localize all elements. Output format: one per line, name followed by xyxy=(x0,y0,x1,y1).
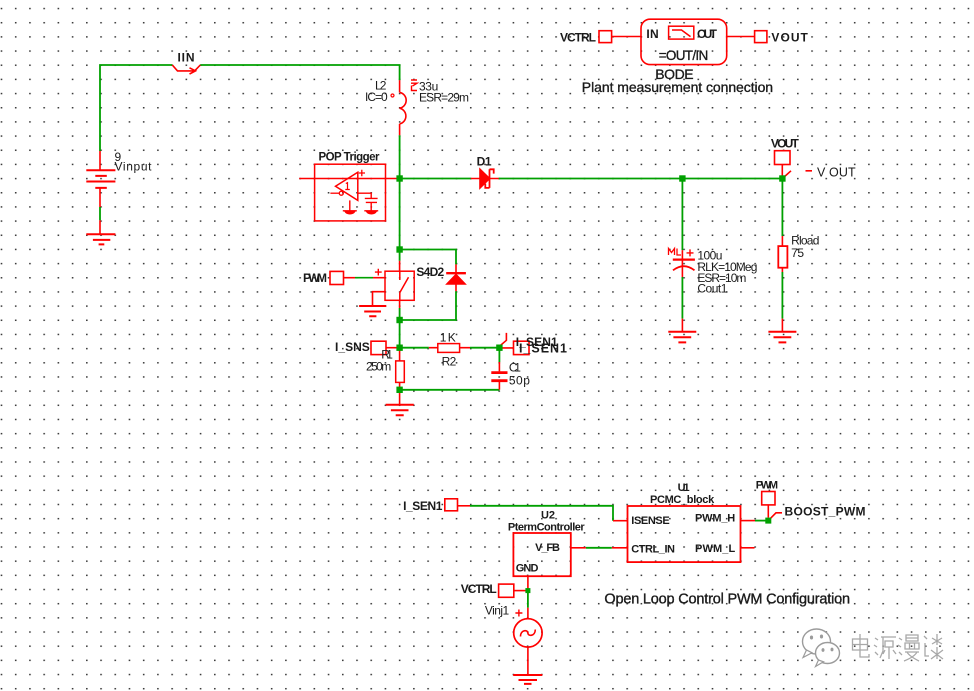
label POP Trigger xyxy=(319,152,381,164)
POP Trigger block U3 xyxy=(315,164,386,221)
wire PWM_H stub xyxy=(740,520,755,522)
wire VCTRL bottom port to node xyxy=(514,590,528,592)
pin label OUT xyxy=(697,27,718,41)
wire PWM_L stub xyxy=(740,547,754,549)
wire branch to body diode xyxy=(400,250,456,265)
svg-text:CTRL_IN: CTRL_IN xyxy=(631,544,675,556)
wire input top (battery to L2) xyxy=(100,65,400,151)
label V OUT net xyxy=(817,166,856,180)
POP Trigger input line xyxy=(299,178,396,180)
port PWM bottom xyxy=(762,492,775,505)
svg-text:PCMC_block: PCMC_block xyxy=(650,494,715,506)
svg-text:VOUT: VOUT xyxy=(771,137,800,151)
ground battery xyxy=(86,234,115,244)
watermark char dian xyxy=(853,634,870,657)
label 1K xyxy=(440,330,456,344)
label I_SEN1 bottom xyxy=(403,499,443,513)
label Vinj1 xyxy=(485,603,510,617)
svg-text:D1: D1 xyxy=(477,155,492,169)
wire I_SNS node to R2 xyxy=(402,347,429,349)
label RLK=10Meg xyxy=(697,260,757,274)
wire VOUT port stub xyxy=(782,165,812,179)
label C1 xyxy=(509,361,521,375)
pin label PWM_L xyxy=(695,543,735,555)
svg-text:IN: IN xyxy=(646,27,658,41)
wire VCTRL top to BODE xyxy=(612,36,641,38)
label PWM bottom xyxy=(756,479,778,491)
svg-text:PWM_L: PWM_L xyxy=(695,543,735,555)
label IIN xyxy=(178,51,195,65)
node Cout junction xyxy=(679,175,685,181)
wire S4D2 top stub xyxy=(399,261,401,271)
node PWM_H junction xyxy=(765,518,771,524)
svg-text:BOOST_PWM: BOOST_PWM xyxy=(785,505,866,519)
svg-text:IIN: IIN xyxy=(178,51,195,65)
label VOUT top of circuit xyxy=(771,137,800,151)
label Rload xyxy=(791,234,819,248)
label PCMC_block xyxy=(650,494,715,506)
svg-text:I_SNS: I_SNS xyxy=(335,340,370,354)
body diode D2 xyxy=(446,273,466,284)
svg-text:I_SEN1: I_SEN1 xyxy=(519,342,567,356)
wire L2 to node A xyxy=(399,135,401,178)
wire battery top lead xyxy=(99,151,101,170)
svg-text:50p: 50p xyxy=(509,374,530,388)
svg-text:C1: C1 xyxy=(509,361,521,375)
wire S4D2 bottom stub xyxy=(399,300,401,308)
POP Trigger comparator triangle xyxy=(336,172,358,200)
L2 IC marker xyxy=(411,80,417,91)
wire Rload lower xyxy=(781,272,783,319)
node C1 top junction xyxy=(496,345,502,351)
wire I_SEN1 to U1 ISENSE xyxy=(470,506,613,521)
ground POP cap (signal) xyxy=(364,211,378,215)
S4D2 plus sign xyxy=(375,269,382,276)
svg-text:VCTRL: VCTRL xyxy=(560,31,596,45)
wire U2 GND pin xyxy=(527,576,529,590)
label =OUT/IN xyxy=(659,48,709,63)
resistor R2 xyxy=(438,344,460,353)
wire U2 V_FB to U1 CTRL_IN xyxy=(586,547,612,549)
node switch top junction xyxy=(396,246,402,252)
wire node A to D1 xyxy=(400,178,471,180)
pin label PWM_H xyxy=(695,512,735,524)
watermark icon small bubble xyxy=(816,643,840,667)
label R2 xyxy=(442,354,457,368)
svg-text:VOUT: VOUT xyxy=(771,31,808,45)
wire S4D2 bottom to I_SNS node xyxy=(399,308,401,348)
wire battery bottom lead xyxy=(99,188,101,234)
wire R2 stubs xyxy=(429,347,470,349)
svg-text:S4D2: S4D2 xyxy=(416,265,444,279)
port VOUT right xyxy=(775,151,791,165)
wire switch node to S4D2 xyxy=(399,250,401,261)
svg-text:I_SEN1: I_SEN1 xyxy=(403,499,443,513)
label VOUT right of BODE xyxy=(771,31,808,45)
label 9 xyxy=(115,150,122,164)
Vinj1 plus sign xyxy=(515,610,522,617)
POP Trigger triangle ground branch xyxy=(349,200,351,210)
svg-text:OUT: OUT xyxy=(697,27,718,41)
svg-text:V OUT: V OUT xyxy=(817,166,856,180)
svg-text:R2: R2 xyxy=(442,354,457,368)
label BODE xyxy=(655,66,693,82)
label I_SEN1 mid black xyxy=(519,342,567,356)
wire PWM port to S4D2 xyxy=(344,277,386,279)
label ESR=29m xyxy=(419,91,469,105)
label 75 xyxy=(791,246,804,260)
label ESR=10m xyxy=(697,271,746,285)
POP Trigger 1 glyph xyxy=(345,183,350,190)
wire Cout branch lower xyxy=(681,277,683,319)
label Vinput xyxy=(115,160,153,174)
label I_SEN1 red xyxy=(516,335,558,349)
svg-text:Open Loop Control PWM Configur: Open Loop Control PWM Configuration xyxy=(604,592,850,608)
Cout1 plus sign xyxy=(687,249,694,256)
wire PWM port stub and leader xyxy=(768,505,782,521)
label Cout1 xyxy=(697,282,727,296)
POP Trigger cap branch xyxy=(358,193,378,211)
capacitor C1 xyxy=(491,373,507,381)
wire I_SEN1 mid port tick xyxy=(497,333,506,348)
svg-text:POP Trigger: POP Trigger xyxy=(319,152,381,164)
svg-text:Vinj1: Vinj1 xyxy=(485,603,510,617)
wire VCTRL node to Vinj1 xyxy=(527,591,529,608)
wire C1 node to I_SEN1 port xyxy=(497,347,514,349)
BODE plot icon xyxy=(669,26,694,39)
watermark char tan xyxy=(924,634,943,659)
label VCTRL top xyxy=(560,31,596,45)
wire R1 bottom row to C1 bottom xyxy=(400,389,500,391)
wire R1 stubs xyxy=(399,348,401,390)
ground R1 xyxy=(386,405,414,416)
wire Cout stubs xyxy=(681,250,683,332)
port I_SNS xyxy=(371,341,386,354)
node switch bottom junction xyxy=(396,317,402,323)
S4D2 lower pin to ground xyxy=(373,292,386,306)
svg-text:75: 75 xyxy=(791,246,804,260)
current probe IIN xyxy=(172,65,200,74)
port PWM left xyxy=(330,271,344,284)
label Plant measurement connection xyxy=(582,79,773,95)
wire C1 stubs xyxy=(498,362,500,390)
svg-text:VCTRL: VCTRL xyxy=(461,582,497,596)
watermark icon big bubble xyxy=(803,629,831,658)
Cout1 ML marker xyxy=(669,249,682,256)
svg-text:PWM: PWM xyxy=(756,479,778,491)
svg-text:GND: GND xyxy=(516,563,539,575)
wire BODE to VOUT top xyxy=(727,36,755,38)
port VOUT top xyxy=(755,31,767,43)
label L2 xyxy=(375,79,387,93)
wire R1 to ground stub xyxy=(399,390,401,405)
wire I_SNS port to node xyxy=(386,347,400,349)
svg-text:=OUT/IN: =OUT/IN xyxy=(659,48,709,63)
node VCTRL bottom junction xyxy=(525,588,530,593)
svg-text:IC=0: IC=0 xyxy=(365,90,388,104)
node A junction xyxy=(396,175,402,181)
wire L2 bottom lead xyxy=(399,124,401,135)
ground Cout1 xyxy=(668,332,696,343)
resistor R1 xyxy=(396,361,405,383)
wire Rload upper xyxy=(781,179,783,237)
svg-text:V_FB: V_FB xyxy=(535,542,560,554)
label S4D2 xyxy=(416,265,444,279)
pin label CTRL_IN xyxy=(631,544,675,556)
diode D1 schottky xyxy=(480,169,494,188)
svg-text:U1: U1 xyxy=(678,482,690,494)
ground POP triangle (signal) xyxy=(343,211,357,215)
label 50p xyxy=(509,374,530,388)
block U1 PCMC_block xyxy=(628,506,741,562)
wire node A to switch node xyxy=(399,179,401,250)
wire I_SEN1 port stub xyxy=(458,505,471,507)
label R1 xyxy=(381,348,393,362)
BODE block xyxy=(641,19,727,64)
svg-text:Vinput: Vinput xyxy=(115,160,153,174)
label BOOST_PWM xyxy=(785,505,866,519)
wire V_FB stub xyxy=(571,547,586,549)
source Vinj1 sine xyxy=(514,619,542,647)
label Open Loop Control PWM Configuration xyxy=(604,592,850,608)
svg-text:Plant measurement connection: Plant measurement connection xyxy=(582,79,773,95)
wire body diode bottom to node B xyxy=(400,291,456,320)
pin label IN xyxy=(646,27,658,41)
svg-text:PWM: PWM xyxy=(303,271,327,285)
wire ISENSE stub xyxy=(613,520,628,522)
label IC=0 xyxy=(365,90,388,104)
battery V1 Vinput xyxy=(86,170,115,188)
wire Vinj1 bottom lead xyxy=(527,647,529,675)
label VCTRL bottom xyxy=(461,582,497,596)
inductor L2 xyxy=(400,92,407,124)
port VCTRL bottom xyxy=(499,584,514,597)
label U2 xyxy=(541,509,555,521)
watermark char yuan xyxy=(874,637,896,659)
node R1 bottom junction xyxy=(396,387,402,393)
watermark char man xyxy=(898,635,919,661)
ground S4D2 xyxy=(359,306,386,316)
wire battery mid segment xyxy=(99,207,101,220)
label PWM left xyxy=(303,271,327,285)
svg-text:PWM_H: PWM_H xyxy=(695,512,735,524)
label 100u xyxy=(697,249,722,263)
wire R2 to C1 node xyxy=(470,347,497,349)
pin label GND xyxy=(516,563,539,575)
label 250m xyxy=(366,360,391,374)
label 33u xyxy=(419,79,438,93)
wire Rload stubs xyxy=(781,236,783,332)
node VOUT junction xyxy=(779,175,785,181)
label I_SNS xyxy=(335,340,370,354)
label PtermController xyxy=(508,522,586,534)
ground Vinj1 xyxy=(513,675,542,684)
capacitor Cout1 polarized xyxy=(673,260,695,271)
L2 degree mark xyxy=(391,94,394,97)
wire D1 stubs xyxy=(471,178,499,180)
wire Cout branch upper xyxy=(681,179,683,251)
pin label ISENSE xyxy=(631,515,669,527)
POP Trigger plus sign xyxy=(359,170,365,176)
svg-text:1K: 1K xyxy=(440,330,456,344)
wire U1 PWM_H to PWM node xyxy=(755,520,768,522)
resistor Rload xyxy=(778,246,787,268)
pin label V_FB xyxy=(535,542,560,554)
wire CTRL_IN stub xyxy=(612,547,628,549)
switch S4D2 xyxy=(385,271,414,300)
label U1 xyxy=(678,482,690,494)
svg-text:U2: U2 xyxy=(541,509,555,521)
ground Rload xyxy=(768,332,796,343)
svg-text:PtermController: PtermController xyxy=(508,522,586,534)
wire D1 to VOUT corner xyxy=(499,178,783,180)
node I_SNS junction xyxy=(396,345,402,351)
POP Trigger inverting bubble xyxy=(330,191,343,195)
svg-text:250m: 250m xyxy=(366,360,391,374)
block U2 PtermController xyxy=(513,533,570,576)
port I_SEN1 bottom xyxy=(445,499,458,511)
svg-text:Cout1: Cout1 xyxy=(697,282,727,296)
svg-text:ISENSE: ISENSE xyxy=(631,515,669,527)
wire body diode stubs xyxy=(455,264,457,291)
svg-text:ESR=29m: ESR=29m xyxy=(419,91,469,105)
port I_SEN1 mid xyxy=(514,341,530,354)
wire Vinj1 top lead xyxy=(527,608,529,619)
label D1 xyxy=(477,155,492,169)
wire C1 node down xyxy=(498,350,500,362)
port VCTRL top xyxy=(599,31,612,43)
wire L2 top lead xyxy=(399,80,401,92)
